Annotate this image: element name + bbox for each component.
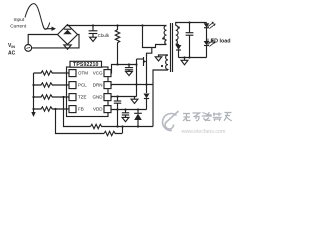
wire source top to bridge left bbox=[28, 35, 57, 45]
ground arrow GND bbox=[131, 97, 138, 104]
wire aux top bbox=[159, 55, 169, 57]
transformer core bbox=[171, 23, 173, 72]
rail arrow to gnd bbox=[31, 109, 35, 117]
wire c3 loop drop bbox=[117, 110, 119, 127]
svg-text:OTM: OTM bbox=[78, 71, 88, 76]
wire GND net bbox=[111, 96, 137, 99]
wire VDD net bbox=[111, 109, 147, 111]
wire VCC net bbox=[111, 65, 137, 74]
AC source V1 bbox=[25, 45, 32, 52]
pin VDD bbox=[104, 106, 111, 113]
wire feedback loop B bbox=[56, 109, 105, 134]
pin VCC bbox=[104, 70, 111, 77]
node out cap bottom bbox=[188, 56, 190, 58]
svg-text:VDD: VDD bbox=[93, 107, 103, 112]
input current arrow bbox=[46, 27, 57, 31]
resistor R3 TZE bbox=[34, 95, 70, 99]
node VCC cap bbox=[128, 63, 130, 65]
wire source right to bridge right bbox=[32, 35, 79, 48]
diode D3 sense bbox=[144, 94, 150, 110]
LED D6 arrows bbox=[208, 39, 216, 46]
pin PCL bbox=[69, 82, 76, 89]
output bottom rail bbox=[179, 57, 207, 59]
svg-text:www.elecfans.com: www.elecfans.com bbox=[182, 129, 226, 135]
IC U1 TPS92210 bbox=[67, 67, 109, 117]
input current sine annotation bbox=[25, 4, 50, 30]
pin GND bbox=[104, 94, 111, 101]
node VDD diode bbox=[137, 108, 139, 110]
wire aux bottom bbox=[153, 70, 168, 127]
node startup resistor top bbox=[116, 24, 118, 26]
transformer T1 primary bbox=[164, 26, 166, 45]
transformer T1 secondary bbox=[176, 26, 178, 45]
resistor R7 loop B bbox=[104, 131, 122, 135]
wire primary bottom bbox=[147, 45, 167, 48]
capacitor C2 VCC bbox=[125, 65, 133, 76]
LED D5 arrows bbox=[208, 22, 216, 29]
LED D6 bbox=[204, 41, 210, 58]
resistor R4 FB bbox=[34, 107, 70, 111]
node secondary dot bbox=[178, 26, 180, 28]
resistor R6 loop A bbox=[91, 124, 154, 128]
pin OTM bbox=[69, 70, 76, 77]
wire loop B rise bbox=[122, 127, 124, 134]
bridge output hollow arrow bbox=[64, 45, 71, 49]
capacitor C5 output bbox=[186, 23, 194, 58]
resistor R5 startup bbox=[115, 26, 119, 65]
capacitor C4 VDD bbox=[122, 110, 129, 122]
node primary dot bbox=[162, 37, 164, 39]
bridge rectifier bbox=[58, 25, 78, 45]
resistor R1 OTM bbox=[34, 71, 70, 75]
node DRV gate branch bbox=[135, 83, 137, 85]
svg-text:Input: Input bbox=[14, 17, 25, 23]
ground arrow output bbox=[181, 58, 188, 65]
node rail row2 bbox=[32, 84, 34, 86]
node FB branch bbox=[54, 108, 56, 110]
node out cap top bbox=[188, 21, 190, 23]
svg-text:GND: GND bbox=[93, 95, 104, 100]
node loop c3 bbox=[116, 125, 118, 127]
resistor R2 PCL bbox=[34, 83, 70, 87]
node TZE branch bbox=[62, 96, 64, 98]
LED D5 bbox=[204, 23, 210, 42]
capacitor C3 bbox=[114, 97, 121, 110]
left rail bbox=[33, 73, 35, 109]
svg-text:LED load: LED load bbox=[207, 38, 230, 44]
node Cbulk top bbox=[92, 24, 94, 26]
svg-text:TZE: TZE bbox=[78, 95, 87, 100]
node snubber top bbox=[141, 24, 143, 26]
node rail row4 bbox=[32, 108, 34, 110]
node loop join bbox=[121, 125, 123, 127]
diode D4 output bbox=[176, 45, 182, 58]
capacitor Cbulk bbox=[89, 26, 98, 42]
pin DRV bbox=[104, 82, 111, 89]
diode D2 bootstrap bbox=[134, 110, 142, 127]
node VDD c3 bbox=[116, 108, 118, 110]
wire secondary top bbox=[176, 23, 207, 26]
node rail row3 bbox=[32, 96, 34, 98]
label VIN AC bbox=[8, 43, 16, 57]
watermark CJK text strokes bbox=[183, 112, 232, 121]
IC title box bbox=[70, 61, 102, 67]
top rail bbox=[68, 24, 167, 27]
svg-text:TPS92210: TPS92210 bbox=[73, 62, 98, 68]
node VCC startup bbox=[116, 63, 118, 65]
svg-text:VIN: VIN bbox=[8, 43, 15, 49]
svg-text:FB: FB bbox=[78, 107, 84, 112]
transistor Q1 mosfet bbox=[137, 48, 152, 94]
svg-text:Cbulk: Cbulk bbox=[98, 33, 110, 38]
pin TZE bbox=[69, 94, 76, 101]
svg-text:PCL: PCL bbox=[78, 83, 87, 88]
svg-text:Current: Current bbox=[10, 24, 27, 30]
node DRV source bbox=[145, 83, 147, 85]
node aux dot bbox=[161, 65, 163, 67]
svg-text:VCG: VCG bbox=[93, 71, 103, 76]
node gate vcc cross bbox=[135, 63, 137, 65]
wire gate vertical bbox=[136, 59, 138, 97]
IC pin labels bbox=[78, 71, 103, 112]
bridge diode bbox=[63, 29, 72, 34]
wire secondary bottom bbox=[176, 44, 179, 47]
ground arrow aux bbox=[155, 57, 162, 61]
watermark logo bbox=[163, 111, 179, 131]
svg-text:DRN: DRN bbox=[93, 83, 103, 88]
node out gnd bbox=[183, 56, 185, 58]
node loop diode bbox=[137, 125, 139, 127]
transformer T1 aux bbox=[166, 55, 168, 70]
wire snubber drop bbox=[143, 26, 147, 48]
label Input Current bbox=[10, 17, 27, 30]
wire DRV net bbox=[111, 84, 153, 87]
svg-text:AC: AC bbox=[8, 51, 16, 57]
node VDD c4 bbox=[124, 108, 126, 110]
pin FB bbox=[69, 106, 76, 113]
node GND cap bbox=[116, 95, 118, 97]
wire feedback loop A bbox=[64, 97, 91, 127]
